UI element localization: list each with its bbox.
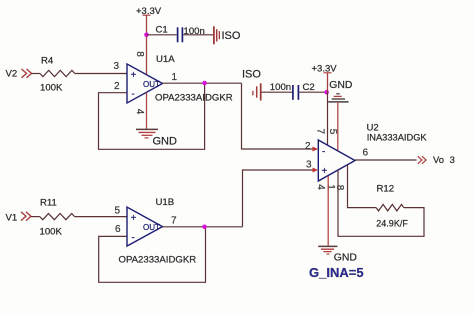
wire U1A pin4 to ground [146,92,148,128]
svg-text:OUT: OUT [143,223,160,232]
svg-text:4: 4 [315,184,326,190]
svg-text:G_INA=5: G_INA=5 [309,265,364,280]
wire R11 to U1B pin5 [75,216,127,218]
junction dot at C1 tap [144,33,149,38]
wire U2 pin1 loop to R12 right [338,170,424,236]
svg-text:100K: 100K [40,83,63,94]
svg-text:R12: R12 [377,184,395,195]
op-amp U2 [318,140,355,181]
svg-text:U1B: U1B [156,197,175,208]
svg-text:3: 3 [306,160,312,171]
svg-text:-: - [132,89,135,100]
svg-text:GND: GND [153,136,178,148]
power symbol ISO 1 [214,26,241,44]
op-amp U1B [127,207,163,246]
svg-text:+: + [131,213,137,224]
resistor R11 [40,198,75,238]
resistor R12 [376,184,408,229]
svg-text:3: 3 [114,61,120,72]
svg-text:8: 8 [134,51,145,57]
svg-text:V2: V2 [6,69,18,80]
power +3.3V rail 1 [136,6,162,75]
wire C1 right [183,34,213,36]
svg-text:R4: R4 [41,56,54,67]
svg-text:8: 8 [334,185,345,191]
wire V2 to R4 [32,73,41,75]
ground GND above U2 pin5 (inverted earth) [328,80,352,102]
ground GND under U2 [318,246,357,263]
port V1 [6,212,32,224]
wire U1A feedback loop [99,83,205,149]
wire R4 to U1A pin3 [75,73,127,75]
wire +3.3V down to U2 pin7 [327,92,329,145]
ground GND under U1A [136,129,177,147]
svg-text:C1: C1 [156,25,168,36]
svg-text:4: 4 [134,109,145,115]
svg-text:3: 3 [450,154,455,165]
svg-text:1: 1 [172,72,178,83]
svg-text:+: + [322,166,328,177]
svg-text:-: - [132,232,135,243]
wire C2 to +3.3V rail [299,91,326,93]
wire C1 left [147,34,177,36]
svg-text:+: + [131,70,137,81]
svg-text:Vo: Vo [433,154,444,165]
wire GND to U2 pin5 [337,102,339,150]
capacitor C1 [156,25,205,43]
svg-text:100n: 100n [270,82,291,93]
resistor R4 [40,56,75,94]
junction dot U1A out [202,81,207,86]
svg-text:OPA2333AIDGKR: OPA2333AIDGKR [119,255,197,266]
arrow into U2 pin 3 [313,168,319,173]
svg-text:2: 2 [114,81,120,92]
svg-text:OUT: OUT [143,80,160,89]
svg-text:5: 5 [115,206,121,217]
wire U2 pin4 to ground [327,176,329,246]
port V2 [6,69,32,80]
svg-text:ISO: ISO [222,30,241,42]
svg-text:U1A: U1A [156,54,175,65]
svg-text:C2: C2 [303,82,315,93]
op-amp U1A [127,64,163,103]
wire up to U2 pin3 level [243,170,314,227]
wire U2 output [355,159,417,161]
svg-text:R11: R11 [40,198,57,209]
wire U2 pin8 to R12 left [348,165,377,208]
power +3.3V rail 2 [312,64,338,93]
svg-text:100K: 100K [40,227,63,238]
svg-text:6: 6 [363,148,369,159]
wire down to U2 pin2 level [242,83,314,149]
svg-text:ISO: ISO [242,69,261,81]
wire U1B output [163,226,243,228]
junction dot U1B out [202,225,207,230]
arrow into U2 pin 2 [313,147,319,152]
svg-text:5: 5 [327,129,338,135]
wire U1A output [163,82,242,84]
capacitor C2 [270,82,315,100]
wire U1B feedback loop [99,227,206,282]
svg-text:V1: V1 [6,213,18,224]
svg-text:7: 7 [314,129,325,135]
power symbol ISO 2 [253,83,292,100]
wire V1 to R11 [31,216,40,218]
svg-text:7: 7 [171,216,177,227]
svg-text:INA333AIDGK: INA333AIDGK [367,132,428,142]
junction dot C2 tap [324,90,329,95]
svg-text:-: - [322,147,325,158]
svg-text:OPA2333AIDGKR: OPA2333AIDGKR [155,93,233,104]
svg-text:GND: GND [329,80,352,91]
port Vo 3 [418,154,455,165]
svg-text:GND: GND [334,252,357,263]
svg-text:2: 2 [305,141,311,152]
svg-text:24.9K/F: 24.9K/F [376,218,408,228]
svg-text:6: 6 [115,224,121,235]
